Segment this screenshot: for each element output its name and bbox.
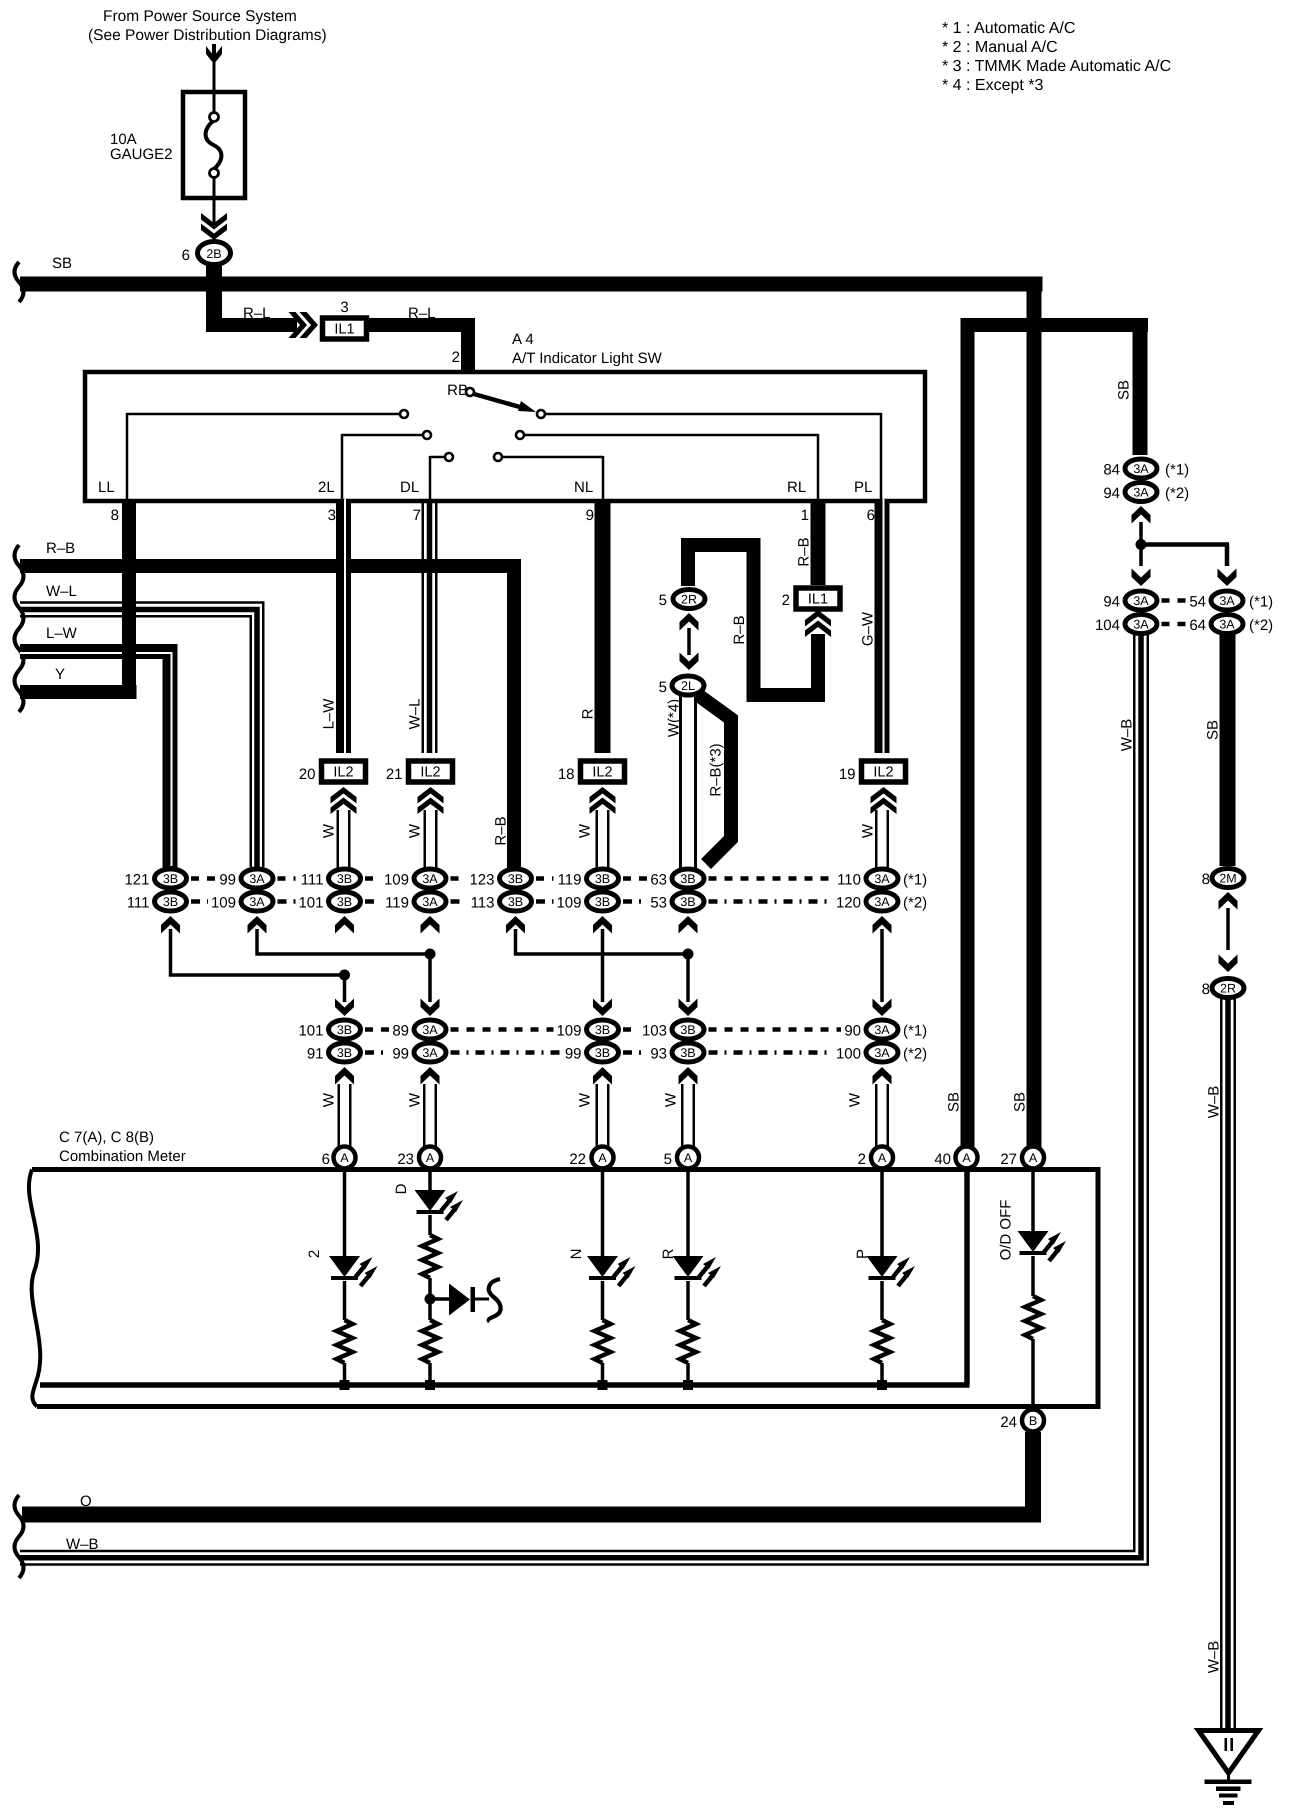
labels (*1)(*2) row B: [903, 1023, 927, 1063]
arrow into IL1: [289, 312, 319, 338]
arrow into IL1 pin2: [805, 610, 831, 637]
svg-text:100: 100: [836, 1046, 861, 1063]
svg-text:3A: 3A: [874, 895, 890, 909]
svg-text:104: 104: [1095, 617, 1120, 634]
ground symbol: [1199, 1731, 1259, 1806]
svg-text:IL1: IL1: [808, 592, 828, 608]
meter lamp O/D OFF: [998, 1170, 1067, 1409]
svg-text:* 2 : Manual A/C: * 2 : Manual A/C: [942, 39, 1058, 56]
svg-text:A: A: [426, 1151, 435, 1165]
wire 2B to R-L corner: [206, 264, 222, 332]
wire 2R to 2L: [687, 628, 691, 655]
svg-text:3B: 3B: [337, 872, 352, 886]
svg-text:IL2: IL2: [873, 765, 893, 781]
svg-text:2: 2: [452, 349, 460, 366]
wire junction 84 to pair: [1136, 522, 1230, 566]
junction dot col3: [339, 970, 350, 981]
svg-text:IL1: IL1: [334, 322, 354, 338]
label W-L rotated: [407, 699, 424, 730]
wire col7 down: [679, 954, 698, 1016]
arrow up into 2R: [680, 613, 699, 631]
break symbol bottom left: [15, 1495, 24, 1578]
svg-text:(*1): (*1): [903, 872, 927, 889]
svg-text:3B: 3B: [680, 1046, 695, 1060]
connector 2R pin 8: [1202, 979, 1244, 999]
svg-text:IL2: IL2: [420, 765, 440, 781]
svg-text:89: 89: [392, 1023, 409, 1040]
label L-W rotated: [321, 698, 338, 730]
svg-text:3B: 3B: [163, 872, 178, 886]
svg-text:Combination Meter: Combination Meter: [59, 1148, 186, 1165]
svg-text:18: 18: [558, 766, 575, 783]
junction dot col4: [425, 949, 436, 960]
meter lamp R: [660, 1170, 721, 1390]
svg-text:3B: 3B: [680, 1023, 695, 1037]
connector IL1 pin 2: [782, 588, 840, 609]
svg-text:3A: 3A: [1133, 462, 1149, 476]
svg-text:SB: SB: [1205, 720, 1222, 740]
svg-text:3B: 3B: [337, 1046, 352, 1060]
svg-text:2: 2: [858, 1151, 866, 1168]
connector IL2 pin 20: [299, 761, 366, 814]
svg-text:2: 2: [306, 1250, 323, 1258]
svg-text:A/T Indicator Light SW: A/T Indicator Light SW: [512, 350, 663, 367]
pin numbers below switch: [111, 507, 875, 524]
svg-text:W–B: W–B: [1206, 1086, 1223, 1119]
svg-text:L–W: L–W: [321, 698, 338, 730]
meter pin 27 A: [1000, 1147, 1044, 1169]
svg-text:(*2): (*2): [1249, 617, 1273, 634]
wire W below IL2-19: [860, 810, 890, 868]
svg-text:103: 103: [642, 1023, 667, 1040]
svg-text:GAUGE2: GAUGE2: [110, 146, 173, 163]
svg-text:123: 123: [469, 872, 494, 889]
svg-text:W–B: W–B: [1206, 1641, 1223, 1674]
svg-text:101: 101: [298, 895, 323, 912]
meter lamp 2: [306, 1170, 378, 1390]
wire W-L: [20, 583, 263, 867]
wire Y: [20, 666, 137, 699]
svg-text:3B: 3B: [508, 872, 523, 886]
svg-text:6: 6: [322, 1151, 330, 1168]
svg-text:3B: 3B: [595, 872, 610, 886]
svg-text:84: 84: [1103, 462, 1120, 479]
label R-B rotated col5: [493, 816, 510, 845]
connector IL2 pin 21: [386, 761, 453, 814]
wire O from 24B: [22, 1432, 1041, 1523]
connector 3B 123/113 col x=515.5: [469, 869, 531, 934]
arrow down into 2R: [1219, 955, 1238, 973]
combination meter box: [29, 1170, 1098, 1407]
svg-text:L–W: L–W: [46, 625, 78, 642]
svg-text:RL: RL: [787, 479, 806, 496]
svg-text:109: 109: [556, 1023, 581, 1040]
wire W below IL2-20: [321, 810, 351, 868]
connector 3A 90/100 row B x=882: [836, 1020, 898, 1085]
svg-text:R: R: [580, 708, 597, 719]
svg-text:1: 1: [801, 507, 809, 524]
svg-text:RB: RB: [447, 382, 468, 399]
svg-text:C 7(A), C 8(B): C 7(A), C 8(B): [59, 1129, 154, 1146]
svg-text:119: 119: [385, 895, 409, 912]
svg-text:121: 121: [124, 872, 149, 889]
svg-text:(*2): (*2): [903, 1046, 927, 1063]
svg-text:R–L: R–L: [243, 305, 271, 322]
svg-text:R–L: R–L: [408, 305, 436, 322]
svg-text:R–B: R–B: [731, 615, 748, 644]
wire col3 down: [335, 975, 354, 1016]
meter pin 40 A: [934, 1147, 977, 1169]
meter pin 6 A: [322, 1147, 356, 1169]
svg-text:120: 120: [836, 895, 861, 912]
svg-text:W: W: [321, 1092, 338, 1107]
svg-text:99: 99: [565, 1046, 582, 1063]
meter pin 23 A: [397, 1147, 441, 1169]
svg-text:W: W: [407, 823, 424, 838]
wire PL pin 6 G-W: [860, 499, 890, 753]
A/T indicator light switch box outline: [85, 372, 925, 501]
labels (*1)(*2) row A: [903, 872, 927, 912]
svg-text:3A: 3A: [249, 872, 265, 886]
svg-text:2L: 2L: [681, 679, 695, 693]
svg-text:3: 3: [340, 299, 348, 316]
switch contact row LL-PL: [127, 410, 881, 499]
connector 2L pin 5: [659, 676, 704, 696]
connector 3A 84/94 (*1)(*2): [1103, 459, 1189, 524]
svg-text:99: 99: [219, 872, 236, 889]
svg-text:94: 94: [1103, 594, 1120, 611]
svg-text:A 4: A 4: [512, 331, 534, 348]
wire W-B bottom label: [66, 1536, 99, 1553]
svg-text:A: A: [878, 1151, 887, 1165]
wire W to meter x=688: [663, 1084, 696, 1150]
svg-text:SB: SB: [1012, 1092, 1029, 1112]
svg-text:3A: 3A: [422, 1023, 438, 1037]
svg-text:A: A: [684, 1151, 693, 1165]
connector 3A 54/64 (*1)(*2): [1189, 591, 1273, 634]
svg-text:24: 24: [1000, 1414, 1017, 1431]
dashed links row A2: [191, 899, 833, 904]
svg-text:R–B: R–B: [796, 537, 813, 566]
connector 24 B: [1000, 1410, 1044, 1432]
dashed links row A1: [191, 876, 833, 881]
svg-text:From Power Source System: From Power Source System: [103, 8, 297, 25]
connector 3B 63/53 col x=688: [650, 869, 704, 934]
svg-text:111: 111: [301, 872, 324, 889]
svg-text:91: 91: [307, 1046, 324, 1063]
svg-text:(*1): (*1): [1249, 594, 1273, 611]
svg-text:8: 8: [1202, 981, 1210, 998]
svg-text:* 3 : TMMK Made Automatic A/C: * 3 : TMMK Made Automatic A/C: [942, 58, 1171, 75]
svg-text:R–B: R–B: [493, 816, 510, 845]
svg-text:3A: 3A: [1133, 486, 1149, 500]
svg-text:93: 93: [650, 1046, 667, 1063]
diode branch with curl: [430, 1279, 501, 1322]
meter pin 22 A: [569, 1147, 613, 1169]
svg-text:2R: 2R: [1220, 982, 1236, 996]
connector 3A 99/109 col x=257: [211, 869, 273, 934]
break symbol SB left: [15, 262, 24, 302]
svg-text:A: A: [962, 1151, 971, 1165]
wire R-B(*3): [698, 695, 731, 864]
connector 3A 94/104: [1095, 591, 1157, 634]
svg-text:5: 5: [659, 679, 667, 696]
label 10A GAUGE2: [110, 131, 173, 163]
svg-text:B: B: [1029, 1414, 1037, 1428]
connector IL2 pin 18: [558, 761, 625, 814]
svg-text:3A: 3A: [1219, 594, 1235, 608]
svg-text:A: A: [598, 1151, 607, 1165]
svg-text:SB: SB: [946, 1092, 963, 1112]
wire RL pin 1 R-B: [796, 499, 826, 585]
junction dot col7: [683, 949, 694, 960]
svg-text:3A: 3A: [874, 872, 890, 886]
wire from power source with arrow: [206, 44, 222, 92]
svg-text:101: 101: [298, 1023, 323, 1040]
svg-text:2R: 2R: [681, 593, 697, 607]
svg-text:23: 23: [397, 1151, 414, 1168]
switch contact row DL-NL: [430, 453, 603, 499]
svg-text:O/D OFF: O/D OFF: [998, 1200, 1015, 1261]
svg-text:W: W: [847, 1092, 864, 1107]
wire SB to 2M: [1205, 635, 1236, 866]
wire W below IL2-18: [577, 810, 610, 868]
svg-text:6: 6: [867, 507, 875, 524]
wire R-L segment 2: [369, 305, 475, 374]
svg-text:113: 113: [471, 895, 495, 912]
wire SB to pin40: [946, 325, 975, 1150]
meter lamp D: [393, 1170, 463, 1390]
svg-text:SB: SB: [1116, 380, 1133, 400]
wire R-B bus: [20, 540, 521, 868]
wire SB to 84-3A: [1116, 318, 1148, 455]
svg-text:PL: PL: [854, 479, 872, 496]
fuse 10A GAUGE2: [183, 92, 245, 198]
wire 2M to 2R: [1226, 908, 1230, 950]
connector 3B 119/109 col x=602.5: [556, 869, 618, 934]
wire col2 to col4: [255, 929, 431, 956]
svg-text:2: 2: [782, 592, 790, 609]
switch RB wiper: [447, 382, 536, 412]
wire W-B to ground: [1206, 999, 1237, 1729]
svg-text:2L: 2L: [318, 479, 335, 496]
svg-text:3B: 3B: [337, 895, 352, 909]
svg-text:109: 109: [384, 872, 409, 889]
meter lamp P: [854, 1170, 915, 1390]
wire W to meter x=344.5: [321, 1084, 352, 1150]
wire W below IL2-21: [407, 810, 438, 868]
svg-text:W–L: W–L: [407, 699, 424, 730]
svg-text:19: 19: [839, 766, 856, 783]
wire LL pin 8: [122, 499, 136, 699]
connector 3A 110/120 col x=882: [836, 869, 898, 934]
svg-text:R–B: R–B: [46, 540, 75, 557]
connector 3B 103/93 row B x=688: [642, 1020, 704, 1085]
meter pin 5 A: [664, 1147, 699, 1169]
wire SB to pin27: [1012, 278, 1042, 1150]
svg-text:5: 5: [664, 1151, 672, 1168]
svg-text:27: 27: [1000, 1151, 1017, 1168]
arrow up into 2M: [1219, 892, 1238, 910]
wire col1 to col3: [169, 929, 346, 977]
svg-text:3B: 3B: [595, 1023, 610, 1037]
svg-text:111: 111: [127, 895, 150, 912]
svg-text:90: 90: [844, 1023, 861, 1040]
connector IL1 pin 3: [323, 299, 367, 339]
svg-text:3A: 3A: [874, 1046, 890, 1060]
switch terminal labels: [98, 479, 872, 496]
arrow down into 2L: [680, 653, 699, 671]
wire SB bus: [20, 255, 1043, 292]
wire 2L pin 3 L-W: [336, 499, 351, 753]
svg-text:2B: 2B: [206, 247, 221, 261]
wire col6 down: [593, 929, 612, 1016]
svg-text:21: 21: [386, 766, 403, 783]
svg-text:* 1 : Automatic A/C: * 1 : Automatic A/C: [942, 20, 1075, 37]
svg-text:3B: 3B: [163, 895, 178, 909]
svg-text:W: W: [407, 1092, 424, 1107]
wire W-B long: [20, 635, 1148, 1565]
wire col8 down: [873, 929, 892, 1016]
label A4 A/T Indicator Light SW: [512, 331, 663, 367]
svg-text:40: 40: [934, 1151, 951, 1168]
switch contact row 2L-RL: [342, 431, 818, 499]
svg-text:W–B: W–B: [66, 1536, 99, 1553]
svg-text:6: 6: [182, 247, 190, 264]
svg-text:R–B(*3): R–B(*3): [708, 743, 725, 796]
svg-text:W: W: [577, 1092, 594, 1107]
svg-text:99: 99: [392, 1046, 409, 1063]
svg-text:3A: 3A: [422, 1046, 438, 1060]
connector IL2 pin 19: [839, 761, 906, 814]
legend notes: [942, 20, 1171, 94]
svg-text:A: A: [340, 1151, 349, 1165]
svg-text:54: 54: [1189, 594, 1206, 611]
svg-text:3A: 3A: [1219, 618, 1235, 632]
svg-text:Y: Y: [55, 666, 65, 683]
svg-text:(See Power Distribution Diagra: (See Power Distribution Diagrams): [88, 27, 327, 44]
svg-text:G–W: G–W: [860, 611, 877, 646]
meter lamp N: [568, 1170, 636, 1390]
dashed links row B2: [365, 1050, 833, 1055]
svg-text:110: 110: [837, 872, 861, 889]
svg-text:2M: 2M: [1219, 872, 1236, 886]
svg-text:63: 63: [650, 872, 667, 889]
connector 2R pin 5: [659, 590, 705, 610]
meter pin 2 A: [858, 1147, 893, 1169]
svg-text:W: W: [860, 823, 877, 838]
connector 2B pin 6: [182, 242, 231, 265]
svg-text:3B: 3B: [680, 895, 695, 909]
svg-text:8: 8: [111, 507, 119, 524]
svg-text:3B: 3B: [595, 895, 610, 909]
wire W to meter x=882: [847, 1084, 890, 1150]
svg-text:22: 22: [569, 1151, 586, 1168]
svg-text:(*1): (*1): [903, 1023, 927, 1040]
svg-text:119: 119: [558, 872, 582, 889]
break symbol left group: [15, 545, 24, 712]
wire DL pin 7 W-L: [422, 499, 438, 753]
connector 3A 109/119 col x=430: [384, 869, 446, 934]
arrows into 94/54 pairs: [1132, 569, 1237, 587]
wire col5 to col7: [514, 929, 690, 956]
svg-text:109: 109: [211, 895, 236, 912]
svg-text:W: W: [321, 823, 338, 838]
wire R-B loop to IL1: [681, 538, 825, 702]
svg-text:3A: 3A: [874, 1023, 890, 1037]
svg-text:NL: NL: [574, 479, 593, 496]
meter inner bus: [40, 1171, 970, 1388]
svg-text:* 4 : Except *3: * 4 : Except *3: [942, 77, 1043, 94]
wire W to meter x=430: [407, 1084, 438, 1150]
svg-text:W–B: W–B: [1119, 719, 1136, 752]
connector 3B 101/91 row B x=344.5: [298, 1020, 360, 1085]
connector 3B 121/111 col x=170.5: [124, 869, 186, 934]
wire NL pin 9 R: [580, 499, 611, 753]
svg-text:109: 109: [556, 895, 581, 912]
connector 3B 109/99 row B x=602.5: [556, 1020, 618, 1085]
svg-text:(*2): (*2): [903, 895, 927, 912]
svg-text:N: N: [568, 1249, 585, 1260]
svg-text:3A: 3A: [1133, 594, 1149, 608]
connector 3B 111/101 col x=344.5: [298, 869, 360, 934]
wire fuse to 2B: [201, 198, 227, 240]
wire SB branch bar: [961, 318, 1149, 332]
svg-text:94: 94: [1103, 485, 1120, 502]
svg-text:W: W: [577, 823, 594, 838]
svg-text:A: A: [1029, 1151, 1038, 1165]
wire R-L segment 1: [206, 305, 297, 332]
wire W(*4): [666, 696, 698, 868]
svg-text:(*1): (*1): [1165, 462, 1189, 479]
svg-text:64: 64: [1189, 617, 1206, 634]
svg-text:7: 7: [413, 507, 421, 524]
svg-text:3A: 3A: [1133, 618, 1149, 632]
svg-text:3: 3: [328, 507, 336, 524]
svg-text:8: 8: [1202, 871, 1210, 888]
svg-text:3A: 3A: [422, 895, 438, 909]
svg-text:IL2: IL2: [333, 765, 353, 781]
svg-text:3A: 3A: [249, 895, 265, 909]
label combination meter: [59, 1129, 186, 1165]
dashed links row B1: [365, 1027, 841, 1032]
svg-text:W–L: W–L: [46, 583, 77, 600]
svg-text:W: W: [663, 1092, 680, 1107]
connector 2M pin 8: [1202, 869, 1244, 889]
wire L-W: [20, 625, 172, 868]
svg-text:D: D: [393, 1183, 410, 1194]
svg-text:20: 20: [299, 766, 316, 783]
svg-text:LL: LL: [98, 479, 115, 496]
svg-text:3B: 3B: [680, 872, 695, 886]
svg-text:IL2: IL2: [592, 765, 612, 781]
svg-text:53: 53: [650, 895, 667, 912]
svg-text:(*2): (*2): [1165, 485, 1189, 502]
svg-text:DL: DL: [400, 479, 419, 496]
svg-text:5: 5: [659, 592, 667, 609]
svg-text:O: O: [80, 1493, 92, 1510]
svg-text:3B: 3B: [595, 1046, 610, 1060]
wire col4 down: [421, 954, 440, 1016]
dashed links right pairs: [1162, 601, 1188, 625]
svg-text:9: 9: [586, 507, 594, 524]
wire W to meter x=602.5: [577, 1084, 610, 1150]
connector 3A 89/99 row B x=430: [392, 1020, 446, 1085]
note: power source text: [88, 8, 327, 44]
svg-text:SB: SB: [52, 255, 72, 272]
svg-text:3B: 3B: [508, 895, 523, 909]
svg-text:3B: 3B: [337, 1023, 352, 1037]
